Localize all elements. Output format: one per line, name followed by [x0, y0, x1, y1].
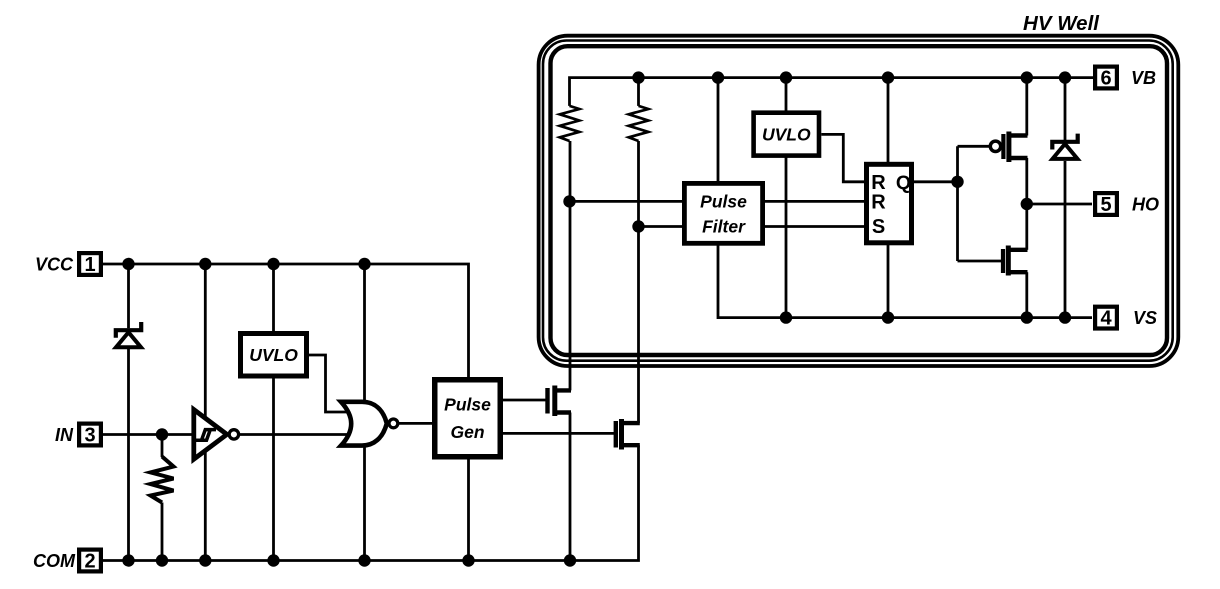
node VS-zener D2 junction — [1059, 311, 1071, 323]
NOR gate U5 — [341, 402, 387, 446]
transistor Q3 channel bar — [1006, 132, 1011, 163]
zener diode D2 triangle — [1053, 144, 1078, 159]
wire supply line through UVLO U3 — [785, 78, 788, 318]
HV Well outer border — [539, 36, 1179, 366]
svg-text:6: 6 — [1100, 68, 1111, 90]
zener diode D1 triangle — [116, 332, 141, 347]
transistor Q1 gate bar — [545, 388, 549, 414]
svg-text:UVLO: UVLO — [762, 125, 811, 145]
resistor R1 (IN pulldown) — [151, 457, 174, 503]
wire Pulse Gen output 2 to Q2 gate — [503, 432, 614, 435]
UVLO block U2 — [241, 334, 307, 377]
transistor Q4 (NMOS) gate bar — [1001, 249, 1005, 273]
latch U4 (RS latch) — [867, 164, 912, 243]
wire resistor R1 branch lower — [161, 503, 164, 561]
wire VS rail through Pulse Filter — [718, 78, 1092, 318]
node VCC-inverter supply junction — [199, 258, 211, 270]
node COM-UVLO junction — [267, 554, 279, 566]
inverter U1 (schmitt trigger) — [194, 410, 227, 460]
zener diode D2 cathode bar — [1052, 134, 1077, 150]
pin 5 box — [1095, 193, 1117, 215]
wire Pulse Gen bottom to COM rail — [467, 460, 470, 561]
Pulse Filter block U7 — [684, 183, 762, 243]
transistor Q2 source arm — [622, 443, 640, 447]
svg-text:1: 1 — [84, 254, 95, 276]
pin 6 box — [1095, 67, 1117, 89]
node COM-inverter junction — [199, 554, 211, 566]
node VCC-NOR supply junction — [358, 258, 370, 270]
node VB-UVLO3 supply junction — [780, 71, 792, 83]
svg-text:Gen: Gen — [450, 422, 484, 442]
wire resistor R1 branch upper — [161, 435, 164, 458]
svg-text:S: S — [872, 216, 885, 238]
wire resistor R3 top lead — [637, 78, 640, 106]
wire gate lead to Q3 bubble — [958, 145, 990, 148]
UVLO block U3 (HV well) — [754, 113, 819, 156]
node VB-Q3 drain junction — [1021, 71, 1033, 83]
wire UVLO U2 output to NOR input — [309, 355, 349, 412]
wire Pulse Filter output R to latch — [765, 200, 866, 203]
wire VCC rail from pin 1 to Pulse Gen top — [103, 264, 469, 377]
node VB-latch supply junction — [882, 71, 894, 83]
pin 2 box — [79, 550, 101, 572]
wire Pulse Filter output S to latch — [765, 225, 866, 228]
node COM-Q1 source junction — [564, 554, 576, 566]
transistor Q4 source arm — [1008, 270, 1027, 274]
wire Q2 drain to resistor R3 — [637, 141, 640, 423]
transistor Q2 channel bar — [619, 419, 624, 450]
wire UVLO U3 output to latch R input — [821, 134, 866, 181]
svg-text:HV Well: HV Well — [1023, 12, 1100, 35]
resistor R2 (HV well left) — [560, 106, 580, 141]
wire Q1 source to COM rail — [569, 413, 572, 561]
node COM-zener junction — [122, 554, 134, 566]
svg-text:COM: COM — [33, 551, 76, 571]
wire inverter output to NOR input — [239, 433, 349, 436]
node COM-resistor junction — [156, 554, 168, 566]
svg-text:VS: VS — [1133, 308, 1157, 328]
node R2-PulseFilter junction — [563, 195, 575, 207]
node VB-zener D2 junction — [1059, 71, 1071, 83]
wire Q3 source to HO node — [1025, 158, 1028, 204]
node COM-NOR junction — [358, 554, 370, 566]
svg-text:3: 3 — [84, 425, 95, 447]
wire gate lead to Q4 — [958, 260, 1002, 263]
node COM-PulseGen junction — [462, 554, 474, 566]
transistor Q3 drain arm — [1009, 133, 1028, 137]
wire latch Q output — [914, 180, 958, 183]
pin 1 box — [79, 253, 101, 275]
pin 4 box — [1095, 307, 1117, 329]
svg-text:Q: Q — [896, 172, 911, 194]
wire Q4 drain to HO node — [1025, 204, 1028, 250]
wire zener D2 upper lead — [1064, 78, 1067, 140]
transistor Q1 source arm — [555, 410, 571, 414]
svg-text:R: R — [871, 192, 886, 214]
svg-text:5: 5 — [1100, 194, 1111, 216]
inverter U1 hysteresis mark — [196, 430, 216, 441]
node IN-resistor junction — [156, 428, 168, 440]
wire supply line through NOR gate — [363, 264, 366, 561]
node R3-PulseFilter junction — [632, 220, 644, 232]
svg-text:IN: IN — [55, 425, 74, 445]
svg-text:HO: HO — [1132, 195, 1159, 215]
node VS-UVLO3 junction — [780, 311, 792, 323]
HV Well middle border — [543, 41, 1173, 361]
wire HO node to pin 5 — [1027, 203, 1092, 206]
wire Q4 source to VS rail — [1025, 272, 1028, 317]
wire Q3 drain to VB rail — [1025, 78, 1028, 136]
wire zener D2 lower lead — [1064, 161, 1067, 318]
wire COM rail from MOSFET Q2 source to pin 2 — [103, 445, 639, 560]
transistor Q3 (PMOS) gate bubble — [990, 141, 1000, 151]
wire Pulse Gen output 1 to Q1 gate — [503, 399, 546, 402]
node VS-latch junction — [882, 311, 894, 323]
transistor Q3 source arm — [1009, 156, 1028, 160]
node VS-Q4 source junction — [1021, 311, 1033, 323]
wire NOR output to Pulse Gen — [399, 422, 432, 425]
NOR gate U5 output bubble — [389, 419, 398, 428]
transistor Q2 gate bar — [614, 421, 618, 448]
svg-text:VB: VB — [1131, 68, 1156, 88]
Pulse Gen block U6 — [435, 380, 501, 457]
zener diode D1 cathode bar — [116, 322, 141, 338]
transistor Q1 channel bar — [552, 386, 557, 417]
wire supply line through UVLO U2 — [272, 264, 275, 561]
svg-text:UVLO: UVLO — [249, 345, 298, 365]
transistor Q4 drain arm — [1008, 248, 1027, 252]
node Q output junction — [951, 176, 963, 188]
transistor Q3 gate bar — [1001, 134, 1005, 159]
node VB-R3 junction — [632, 71, 644, 83]
wire node A resistor R2 to Pulse Filter input — [570, 200, 685, 203]
inverter U1 output bubble — [229, 430, 238, 439]
wire zener D1 branch lower — [127, 349, 130, 561]
wire node B resistor R3 to Pulse Filter input — [639, 225, 685, 228]
transistor Q2 drain arm — [622, 421, 640, 425]
wire Q output to output-stage gates — [956, 146, 959, 261]
wire zener D1 branch upper — [127, 264, 130, 328]
svg-text:Pulse: Pulse — [700, 192, 747, 212]
wire HV well top rail VB — [570, 78, 1094, 106]
HV Well inner border — [551, 46, 1168, 355]
svg-text:Filter: Filter — [702, 217, 746, 237]
node VCC-zener junction — [122, 258, 134, 270]
transistor Q4 channel bar — [1006, 246, 1011, 276]
node HO junction — [1021, 198, 1033, 210]
node VB-PulseFilter supply junction — [712, 71, 724, 83]
svg-text:VCC: VCC — [35, 255, 74, 275]
wire Q1 drain to resistor R2 — [569, 141, 572, 390]
svg-text:2: 2 — [84, 551, 95, 573]
transistor Q1 drain arm — [555, 388, 571, 392]
resistor R3 (HV well right) — [629, 106, 649, 141]
wire IN from pin 3 to inverter input — [103, 433, 195, 436]
node VCC-UVLO supply junction — [267, 258, 279, 270]
wire supply line through inverter — [204, 264, 207, 561]
svg-text:Pulse: Pulse — [444, 395, 491, 415]
pin 3 box — [79, 424, 101, 446]
wire supply line through latch U4 — [887, 78, 890, 318]
svg-text:4: 4 — [1100, 308, 1112, 330]
